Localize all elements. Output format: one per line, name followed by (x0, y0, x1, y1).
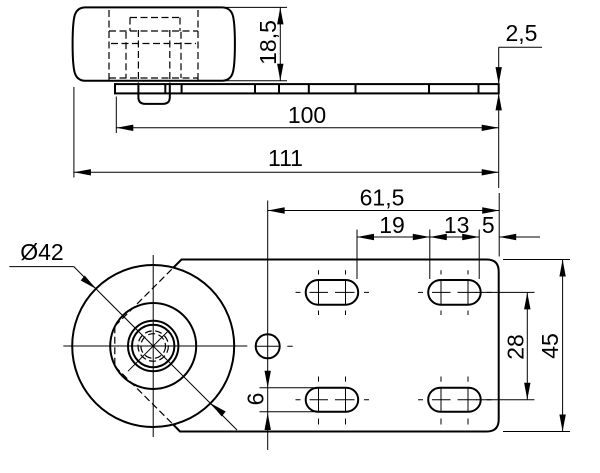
dim 45 extension bottom (503, 431, 570, 433)
slot top left (306, 280, 359, 305)
svg-text:Ø42: Ø42 (20, 239, 63, 265)
slot top right vertical mark 1 (440, 270, 442, 315)
dim 5 arrow (499, 234, 516, 240)
hub outer circle (128, 321, 178, 371)
centerline vertical (152, 255, 154, 437)
svg-text:18,5: 18,5 (255, 20, 281, 65)
dim 18,5 arrow up (277, 7, 283, 24)
dim 111 line (74, 171, 499, 173)
hidden sleeve right (169, 30, 171, 84)
plate tick tab edge (181, 84, 183, 93)
dim 45 arrow up (559, 260, 565, 277)
dim 13 arrow right (462, 234, 479, 240)
plate tick hole right (278, 84, 280, 93)
dim 61,5 arrow left (268, 207, 285, 213)
dim 45 arrow down (559, 415, 565, 432)
svg-text:6: 6 (243, 393, 269, 406)
extension right shared (498, 93, 500, 188)
dim 18,5 line (279, 7, 281, 80)
svg-text:13: 13 (444, 212, 470, 238)
dim 61,5 arrow right (482, 207, 499, 213)
svg-text:100: 100 (288, 102, 326, 128)
slot bottom left horizontal mark (296, 399, 370, 401)
plate tick slot2 right (478, 84, 480, 93)
slot top right vertical mark 2 (467, 270, 469, 315)
plate top view outline (173, 260, 499, 432)
svg-text:2,5: 2,5 (506, 20, 538, 46)
dim 100 extension left (115, 97, 117, 134)
bracket plate side view (115, 84, 499, 93)
slot bottom left (306, 388, 359, 412)
small hole horizontal mark (255, 345, 292, 347)
dim 6 arrow up (265, 413, 271, 430)
centerline horizontal (63, 345, 247, 347)
dim 19 extension left (356, 230, 358, 280)
dim chain line (357, 236, 479, 238)
dim 28 line (526, 292, 528, 399)
leader arrow lower (211, 403, 226, 416)
leader arrow upper (81, 276, 96, 289)
plate tick slot2 left (428, 84, 430, 93)
slot bottom right horizontal mark (418, 399, 492, 401)
hidden nut top (130, 17, 180, 19)
dim 6 extension top (260, 387, 315, 389)
hidden shoulder line upper (109, 30, 198, 32)
leader diameter line (9, 267, 237, 430)
svg-text:111: 111 (268, 145, 303, 171)
svg-text:19: 19 (379, 212, 405, 238)
dim 28 arrow down (524, 383, 530, 400)
slot bottom left vertical mark 1 (318, 377, 320, 425)
hub inner circle (132, 325, 174, 367)
slot bottom right vertical mark 1 (440, 377, 442, 425)
dim 61,5 extension right (498, 193, 500, 257)
dim 19 extension right (429, 230, 431, 280)
dim 19 arrow left (357, 234, 374, 240)
dim 18,5 extension bottom (222, 80, 288, 82)
plate tick rivet right (169, 84, 171, 93)
hidden nut side right (179, 18, 181, 32)
dim 28 extension bottom (476, 399, 535, 401)
hidden plate left edge (114, 326, 116, 366)
dim 6 arrow down (265, 371, 271, 388)
dim 61,5 line (268, 210, 500, 212)
hidden thread circle (138, 331, 168, 361)
dim 2,5 leader upper (498, 47, 500, 83)
hidden plate chamfer top (115, 268, 174, 327)
plate tick slot1 left (308, 84, 310, 93)
dim 100 arrow left (116, 125, 133, 131)
slot top left vertical mark 2 (345, 270, 347, 315)
dim 2,5 shoulder (499, 46, 542, 48)
hub cross mark (128, 331, 168, 371)
hidden nut side left (129, 18, 131, 32)
slot top left horizontal mark (296, 291, 370, 293)
slot bottom right (428, 388, 481, 412)
dim 2,5 arrow down (496, 67, 502, 84)
dim 45 extension top (503, 259, 570, 261)
plate tick rivet pin (164, 84, 166, 93)
roller outer circle (72, 265, 234, 427)
dim 18,5 extension top (223, 6, 288, 8)
slot bottom right vertical mark 2 (467, 377, 469, 425)
dim 28 extension top (476, 291, 535, 293)
svg-text:45: 45 (537, 333, 563, 359)
slot top right (428, 280, 481, 305)
hidden bore inner left (125, 32, 127, 78)
svg-text:5: 5 (482, 212, 495, 238)
roller side view outline (73, 7, 235, 80)
dim 6 extension bottom (260, 411, 315, 413)
dim 111 arrow right (482, 169, 499, 175)
plate tick rivet left (137, 84, 139, 93)
svg-text:28: 28 (503, 334, 529, 360)
hidden shoulder line lower (109, 77, 198, 79)
roller groove circle (110, 303, 196, 389)
slot bottom left vertical mark 2 (345, 377, 347, 425)
hidden bore line left (108, 10, 110, 80)
hidden bore inner right (180, 32, 182, 78)
rivet head below plate (138, 93, 169, 104)
dim 111 arrow left (74, 169, 91, 175)
hidden sleeve left (137, 30, 139, 84)
dim 13 extension right (478, 230, 480, 280)
hidden plate chamfer bottom (115, 366, 173, 424)
dim 2,5 arrow up (496, 93, 502, 110)
dim 13 arrow left (430, 234, 447, 240)
dim 100 line (116, 127, 498, 129)
dim 111 extension left (73, 87, 75, 178)
hidden bearing line middle (111, 43, 196, 45)
dim 100 arrow right (482, 125, 499, 131)
dim 19 arrow right (413, 234, 430, 240)
dim 61,5 extension vertical (267, 201, 269, 451)
slot top left vertical mark 1 (318, 270, 320, 315)
hidden bore line right (197, 10, 199, 80)
dim 45 line (562, 260, 564, 432)
small hole (256, 334, 280, 358)
dim 5 line outside (499, 236, 540, 238)
slot top right horizontal mark (418, 291, 492, 293)
dim 18,5 arrow down (277, 64, 283, 81)
plate tick slot1 right (355, 84, 357, 93)
plate tick hole left (254, 84, 256, 93)
svg-text:61,5: 61,5 (360, 185, 405, 211)
hidden thread minor circle (141, 334, 166, 359)
dim 28 arrow up (524, 292, 530, 309)
